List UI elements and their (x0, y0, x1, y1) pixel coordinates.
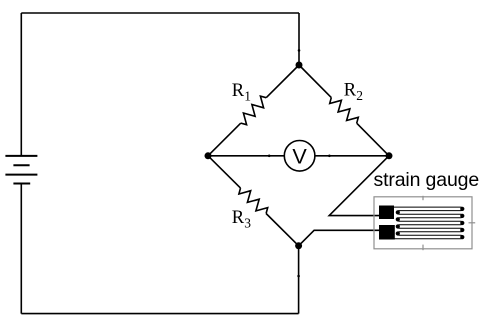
wire bridge bottom vertical (298, 246, 300, 314)
wire bottom node to strain gauge bottom terminal (299, 230, 381, 246)
wire joint tick (mid-left wire) (268, 155, 271, 158)
node right junction (386, 152, 393, 159)
strain gauge grid turn blobs (396, 207, 465, 239)
node top junction (296, 62, 303, 69)
svg-text:V: V (292, 144, 307, 169)
node bottom junction (295, 242, 302, 249)
wire top horizontal (21, 12, 299, 14)
svg-text:2: 2 (356, 88, 363, 103)
label R1 (232, 81, 251, 103)
label R2 (344, 81, 363, 103)
wire top-left vertical (battery top lead) (20, 13, 22, 156)
resistor R3 (208, 156, 299, 246)
wire left node to voltmeter (208, 155, 284, 157)
wire joint tick (mid-right wire) (328, 155, 331, 158)
resistor R2 (299, 65, 389, 156)
node left junction (205, 152, 212, 159)
strain gauge top terminal pad (379, 206, 394, 220)
svg-text:1: 1 (244, 89, 251, 104)
wire right node to strain gauge top terminal (329, 156, 389, 216)
strain gauge serpentine grid (393, 207, 463, 239)
svg-text:R: R (232, 208, 245, 228)
wire joint tick (bottom vertical wire) (297, 275, 300, 278)
resistor R1 (208, 65, 299, 156)
wire bottom-left vertical (battery bottom lead) (20, 184, 22, 314)
svg-text:R: R (344, 81, 357, 101)
svg-text:3: 3 (244, 216, 251, 231)
strain gauge bottom terminal pad (379, 225, 395, 240)
battery (5, 156, 37, 184)
voltmeter V circle (284, 141, 315, 172)
label R3 (232, 208, 252, 230)
wire joint tick (top vertical wire) (298, 49, 301, 52)
wire bottom horizontal (21, 313, 298, 315)
wire right vertical to bridge top (298, 13, 300, 65)
svg-text:R: R (232, 81, 245, 101)
svg-text:strain gauge: strain gauge (374, 169, 480, 191)
wire voltmeter to right node (315, 155, 389, 157)
strain gauge body outline (374, 196, 475, 250)
